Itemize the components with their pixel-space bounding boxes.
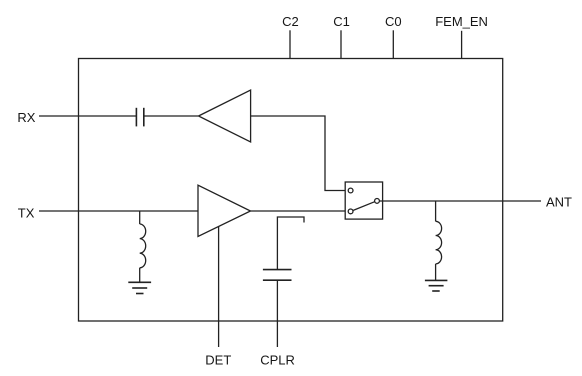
svg-text:C2: C2: [282, 14, 299, 29]
svg-text:ANT: ANT: [546, 195, 572, 210]
svg-text:TX: TX: [18, 205, 35, 220]
svg-text:RX: RX: [17, 110, 35, 125]
svg-text:DET: DET: [205, 352, 231, 367]
svg-text:C1: C1: [333, 14, 350, 29]
svg-text:C0: C0: [385, 14, 402, 29]
svg-text:FEM_EN: FEM_EN: [435, 14, 488, 29]
svg-text:CPLR: CPLR: [260, 352, 295, 367]
